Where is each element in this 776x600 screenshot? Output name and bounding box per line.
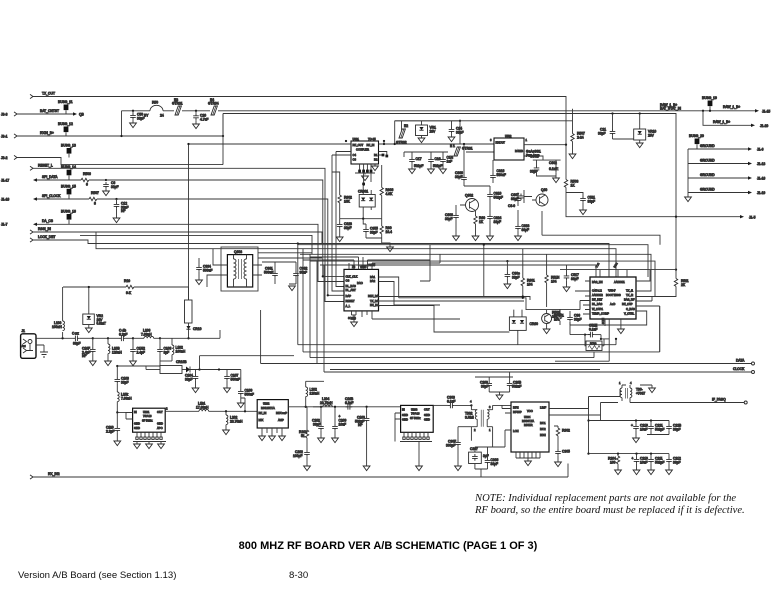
svg-text:33pF: 33pF [494,220,502,224]
svg-text:GND: GND [134,426,140,430]
capacitor C306 [475,447,499,477]
svg-text:GROUND: GROUND [700,187,715,191]
svg-text:39pF: 39pF [313,422,321,426]
capacitor C506 [530,155,561,177]
ferrite bead E516 BUSG_16 [61,210,76,225]
ferrite bead E514 BUSG_14 [61,165,76,180]
svg-text:GROUND: GROUND [700,144,715,148]
svg-text:33pF: 33pF [491,462,499,466]
capacitor C606b [445,205,459,241]
node J1-16 SPI_CLOCK [1,194,89,202]
svg-text:RAW_1_B+: RAW_1_B+ [713,120,730,124]
svg-text:RF_IN: RF_IN [367,143,375,147]
zener VR1 [416,121,437,143]
svg-text:CAT+L2: CAT+L2 [592,289,602,293]
wire U101 out line [165,407,199,412]
svg-text:88pF: 88pF [73,342,81,346]
svg-text:1: 1 [619,381,621,385]
svg-text:33pF: 33pF [185,377,193,381]
capacitor C1N [440,152,454,174]
capacitor C219 [631,421,648,443]
resistor R302 [554,426,570,467]
resistor R808 [380,219,393,252]
svg-text:0.5mT: 0.5mT [97,322,106,326]
svg-text:BUSG_13: BUSG_13 [61,143,76,147]
capacitor C22B [666,421,682,432]
svg-text:RXOUT: RXOUT [496,141,506,145]
svg-text:2.4pF: 2.4pF [137,350,145,354]
svg-text:SPI_DATA: SPI_DATA [42,175,58,179]
wire mid rail h334 [601,338,609,340]
resistor R609 [472,211,485,241]
svg-text:+7067: +7067 [636,391,645,395]
svg-text:RF_IN: RF_IN [259,411,267,415]
ground T301 arrow [640,385,655,393]
wire U700 top pins [594,261,627,277]
capacitor C210 [632,454,649,475]
capacitor C100 [355,407,370,471]
svg-text:33pF: 33pF [344,226,352,230]
svg-text:TX_OUT: TX_OUT [42,92,55,96]
svg-text:E 1: E 1 [450,144,455,148]
wire coupler bottom pins [355,164,375,173]
svg-text:500uF: 500uF [203,268,212,272]
diode pair CR602 [509,310,538,345]
svg-text:C-xx: C-xx [72,332,79,336]
ferrite bead E519 BUSG_19 [702,96,717,112]
svg-text:RSSI_IN: RSSI_IN [38,227,51,231]
node vertical riser to filter chain [120,111,224,145]
wire U700 right pins [570,270,660,325]
wire cap row1 rail [589,415,670,422]
resistor R507 [569,109,585,159]
svg-text:DATA: DATA [736,358,745,362]
svg-text:6.2pF: 6.2pF [119,332,127,336]
svg-text:7.68nH: 7.68nH [141,332,152,336]
svg-text:33pF: 33pF [598,131,606,135]
svg-text:+: + [631,424,633,428]
svg-text:MC2: MC2 [540,427,546,431]
svg-text:RX_IN2: RX_IN2 [48,472,60,476]
capacitor C209 [332,406,347,443]
svg-text:J1-15: J1-15 [762,109,770,113]
svg-text:C602: C602 [549,161,557,165]
resistor R10x [63,279,189,300]
svg-text:CR801: CR801 [358,190,368,194]
svg-text:10uF: 10uF [640,427,648,431]
wire J3-2 net [1,114,223,165]
resistor R806 [380,165,394,219]
svg-text:U203: U203 [411,408,418,412]
svg-text:33pF: 33pF [121,380,129,384]
svg-text:33pF: 33pF [574,317,582,321]
svg-text:500uF: 500uF [245,392,254,396]
svg-text:NP: NP [358,423,363,427]
inductor L203 [306,381,324,407]
wire LOCK_DET net [30,235,609,277]
svg-text:R302: R302 [562,429,570,433]
svg-text:C16: C16 [435,157,441,161]
coupler U801 [351,137,379,164]
svg-text:BY: BY [144,113,149,117]
svg-text:J1-5: J1-5 [749,215,756,219]
svg-text:33pF: 33pF [445,217,453,221]
svg-text:BOOTTBSS: BOOTTBSS [606,293,621,297]
svg-text:RF_OUT: RF_OUT [353,143,364,147]
svg-text:502pF: 502pF [655,460,664,464]
svg-text:IN: IN [134,410,137,414]
svg-text:W_CAP1: W_CAP1 [592,307,604,311]
svg-text:U304: U304 [524,415,531,419]
svg-text:RF8XP: RF8XP [513,410,522,414]
svg-text:MX30TZA: MX30TZA [522,419,534,423]
svg-text:1: 1 [489,428,491,432]
svg-text:J1-16: J1-16 [1,197,9,201]
svg-text:100nH: 100nH [52,325,62,329]
wire RAW_B+ bus line1 [122,110,739,112]
svg-text:GROUND: GROUND [700,173,715,177]
svg-text:6.1uF: 6.1uF [549,167,557,171]
svg-text:BUSG_20: BUSG_20 [689,134,704,138]
node J1-5 [676,215,756,219]
capacitor C862 [262,262,308,291]
svg-text:7.68nH: 7.68nH [121,396,132,400]
svg-text:Ant: Ant [22,344,26,348]
svg-text:100nH: 100nH [176,349,186,353]
svg-text:0.1uF: 0.1uF [589,327,597,331]
wire bias vertical bundle [420,245,440,281]
svg-text:NP: NP [82,354,87,358]
svg-text:C_BAS: C_BAS [626,307,635,311]
svg-text:DL_BAS: DL_BAS [346,284,357,288]
svg-text:RC2: RC2 [612,261,618,268]
svg-text:BA2: BA2 [370,279,376,283]
svg-text:500uF: 500uF [264,270,273,274]
svg-text:RAW_1_B+: RAW_1_B+ [723,105,740,109]
svg-text:33pF: 33pF [111,185,119,189]
node J1-17 SPI_DATA [1,175,81,183]
svg-text:33pF: 33pF [370,230,378,234]
svg-text:Q602: Q602 [465,194,473,198]
capacitor C12 [113,198,128,223]
wire RESET_L net [30,164,344,302]
svg-text:C305: C305 [562,450,570,454]
capacitor C17 [409,152,424,174]
capacitor C203 [312,406,324,443]
svg-text:TX_/1: TX_/1 [626,289,634,293]
diode pair CR801 [358,186,375,219]
svg-text:J1-17: J1-17 [1,178,9,182]
wire U203 side taps [395,413,401,442]
node J3-3 BAT_CNTST [1,109,85,117]
svg-text:GTR02: GTR02 [396,141,407,145]
capacitor C104 [185,370,199,393]
svg-text:AMP: AMP [278,418,284,422]
svg-text:500uF: 500uF [231,377,240,381]
wire upper bias rail [394,121,460,145]
capacitor C511 [566,193,595,215]
capacitor C212 [666,454,681,475]
svg-text:LIMF: LIMF [540,406,546,410]
svg-text:J1: J1 [22,329,26,333]
svg-text:C4: C4 [353,153,357,157]
svg-text:100: 100 [610,460,616,464]
capacitor C303 series [433,396,472,409]
resistor R51N [545,254,560,307]
wire U203 bottom pins [400,432,432,470]
svg-text:CR10B: CR10B [176,360,187,364]
resistor R202 [299,407,309,450]
capacitor C211 [648,454,665,475]
svg-text:C6-0: C6-0 [508,204,515,208]
svg-text:GTR01: GTR01 [172,101,183,105]
svg-text:GROUND: GROUND [700,158,715,162]
svg-text:502uF: 502uF [512,384,521,388]
wire bus B6 [310,260,655,297]
svg-text:R50: R50 [152,101,158,105]
svg-text:33pF: 33pF [455,175,463,179]
svg-text:U801: U801 [353,137,360,141]
capacitor C307 [469,447,489,469]
capacitor C624 [487,214,502,241]
svg-text:4.7uF: 4.7uF [200,117,208,121]
wire PA collector feed [395,120,573,144]
wire lower tap [116,361,160,377]
wire DAC top routing [303,257,440,263]
IC U203 [401,405,434,432]
resistor R511 [636,268,689,301]
svg-text:TX_DA: TX_DA [370,299,379,303]
inductor L10k [116,392,132,414]
svg-text:MIXER: MIXER [524,423,533,427]
inductor L1b1 [196,402,257,413]
svg-text:3: 3 [489,405,491,409]
transistor Q602 [460,194,479,212]
svg-text:A+D: A+D [610,302,615,306]
svg-text:R506: R506 [83,172,91,176]
wire bus bend group left of coupler [332,152,344,292]
wire GROUND J1-19 [688,187,765,195]
svg-text:502pF: 502pF [433,164,442,168]
svg-text:A_L: A_L [346,304,351,308]
svg-text:QB: QB [79,113,85,117]
svg-text:2K: 2K [681,283,686,287]
wire BAT_STAT bus line2 [223,114,676,270]
svg-text:Q60: Q60 [541,188,547,192]
capacitor C607 [511,190,532,203]
wire q603 to bus [207,249,220,287]
svg-text:24: 24 [160,113,164,117]
connector J1 antenna [21,329,36,358]
svg-text:6: 6 [86,183,88,187]
svg-text:RXIN_B+: RXIN_B+ [40,131,54,135]
svg-text:28V: 28V [430,129,437,133]
capacitor C221 [647,421,669,435]
svg-text:10.4: 10.4 [386,230,393,234]
svg-text:RF_DET: RF_DET [592,298,603,302]
svg-text:GND: GND [424,413,430,417]
capacitor C6 [103,179,344,278]
svg-text:33pF: 33pF [530,170,538,174]
capacitor C617 [508,193,521,209]
wire J1 stub [36,345,48,357]
svg-text:U202: U202 [263,402,270,406]
resistor R506 [81,172,106,187]
svg-text:AADDE1: AADDE1 [614,280,625,284]
svg-text:OUT: OUT [157,410,163,414]
svg-text:J1-16: J1-16 [757,177,765,181]
wire DATA net [261,310,755,365]
wire coupler left pins [332,152,351,156]
svg-text:R10: R10 [124,279,130,283]
transistor RF601 [542,310,564,334]
svg-text:502pF: 502pF [414,164,423,168]
svg-text:502pF: 502pF [494,195,503,199]
wire antenna RF line [36,337,73,339]
wire RX_IN2 net [30,464,568,480]
svg-text:GND: GND [402,418,408,422]
diode CR10B path [146,360,201,374]
ground DAC [348,311,357,327]
svg-text:10uF: 10uF [339,422,347,426]
svg-text:V_CTRL: V_CTRL [624,312,635,316]
inductor L106 [133,329,160,339]
svg-text:J1-6: J1-6 [757,148,764,152]
capacitor C602 [524,156,559,183]
wire REG_IN net [30,227,616,277]
svg-text:39pF: 39pF [673,427,681,431]
svg-text:88pF: 88pF [522,228,530,232]
svg-text:BUSG_16: BUSG_16 [61,210,76,214]
capacitor C21 [598,112,615,139]
capacitor C101 series [72,332,93,346]
svg-text:R1: R1 [374,153,378,157]
svg-text:GND: GND [157,422,163,426]
jumper E1 [450,144,473,156]
svg-text:104: 104 [527,282,533,286]
wire U700 left pins [575,281,590,314]
resistor R801 [484,245,535,298]
node J1-20 RAW_1_B+ [702,110,769,128]
svg-text:33pF: 33pF [512,275,520,279]
jumper E2 [396,121,408,145]
wire cap rail [404,152,494,157]
svg-text:9-K: 9-K [126,291,132,295]
svg-text:CR60: CR60 [530,322,539,326]
capacitor C103 [115,377,130,393]
node J1-7 DA_CS [1,219,344,281]
svg-text:BUSG_15: BUSG_15 [61,184,76,188]
svg-text:RX_DA: RX_DA [370,303,379,307]
svg-text:SQ(M): SQ(M) [348,316,356,320]
transformer Q603 [227,250,252,287]
svg-text:SPI_CLOCK: SPI_CLOCK [42,194,61,198]
IC U202 buffer [257,400,288,428]
svg-text:1K: 1K [479,220,484,224]
capacitor C50 [130,110,145,128]
jumper E3 [172,98,183,115]
wire bus B7 [320,265,596,277]
capacitor C517 [563,265,579,292]
svg-text:23.78nH: 23.78nH [320,401,333,405]
svg-text:OUT: OUT [424,408,430,412]
capacitor C855 [363,219,382,238]
resistor R508 [564,180,677,218]
wire Q603 shield box [221,247,322,291]
svg-text:+: + [632,457,634,461]
ferrite bead E520 BUSG_20 [688,134,704,149]
wire GROUND J1-6 [688,144,764,152]
svg-text:BAS_EN: BAS_EN [592,280,603,284]
wire PA output [524,144,567,180]
IC U800 DAC [344,263,379,311]
svg-text:2-24: 2-24 [577,135,584,139]
svg-text:3pF: 3pF [164,350,170,354]
wire U202 out [288,406,400,408]
wire bottom band BB2 [303,306,660,352]
svg-text:120nH: 120nH [310,391,320,395]
svg-text:CLOCK: CLOCK [733,367,745,371]
svg-text:MIX: MIX [259,418,264,422]
capacitor C202 [293,450,310,471]
capacitor C1b series [108,329,133,342]
IC U700 [590,277,636,319]
svg-text:MC1: MC1 [540,421,546,425]
wire mixer bottom pins [516,452,540,466]
svg-text:E2: E2 [404,124,408,128]
wire bottom band BB1 [298,338,617,345]
ferrite bead E513 BUSG_13 [61,143,76,157]
resonator Z101 [185,300,193,326]
capacitor C107 [218,368,241,392]
svg-text:RESET_L: RESET_L [38,164,53,168]
svg-text:2.2pF: 2.2pF [106,429,114,433]
wire TX_OUT net [30,92,566,145]
capacitor C80e [504,261,520,289]
ferrite bead E512 BUSG_12 [58,122,73,136]
svg-text:LOCK_DET: LOCK_DET [38,235,55,239]
wire mixer left pins [475,405,511,447]
svg-text:VCC: VCC [527,409,533,413]
IC U101 VCO [133,408,166,432]
svg-text:J1-20: J1-20 [760,124,768,128]
svg-text:300pF: 300pF [446,443,455,447]
wire mixer right nets [549,397,620,416]
svg-text:1: 1 [526,138,528,142]
capacitor C828 [336,219,352,242]
capacitor C51E [584,324,602,341]
svg-text:J1-13: J1-13 [757,162,765,166]
svg-text:6.1uF: 6.1uF [447,399,455,403]
wire detector feed [332,172,371,195]
svg-text:BUSG_12: BUSG_12 [58,122,73,126]
svg-text:6.2pF: 6.2pF [345,401,353,405]
node J1-15 RAW_1_B+ [660,103,770,114]
svg-text:SF RfMx: SF RfMx [142,419,153,423]
svg-text:BUSG_11: BUSG_11 [58,100,73,104]
svg-text:70V-16: 70V-16 [143,414,152,418]
capacitor C109 [237,370,253,408]
svg-text:MX12RT1A: MX12RT1A [261,406,275,410]
svg-text:R2: R2 [374,158,378,162]
wire bus B2 [298,244,648,277]
svg-text:70V-16: 70V-16 [411,412,420,416]
wire CLOCK net [324,367,755,374]
svg-text:CS: CS [346,279,350,283]
svg-text:SCM: SCM [601,317,605,324]
wire detector rail [340,218,382,220]
wire GROUND J1-13 [688,158,765,166]
